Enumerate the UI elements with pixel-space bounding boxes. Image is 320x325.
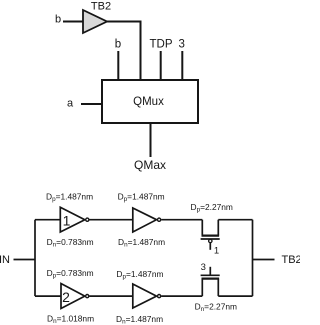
wire QMux output xyxy=(150,123,152,157)
transistor M1 drain lead xyxy=(217,220,219,236)
wire inverter 2b to transistor M3 xyxy=(161,295,202,297)
svg-text:IN: IN xyxy=(0,254,10,266)
wire buffer output to QMux xyxy=(107,22,141,81)
svg-text:3: 3 xyxy=(201,262,206,273)
transistor M1 gate bubble xyxy=(209,239,212,242)
wire pin 3 xyxy=(181,51,183,80)
svg-text:a: a xyxy=(67,98,74,110)
wire TB2 output xyxy=(253,259,275,261)
svg-text:1: 1 xyxy=(63,213,71,229)
svg-text:1: 1 xyxy=(214,246,219,257)
transistor M3 gate bar xyxy=(201,274,220,276)
svg-text:TDP: TDP xyxy=(150,39,173,51)
svg-text:QMux: QMux xyxy=(133,96,164,108)
inverter 1 xyxy=(60,207,85,232)
transistor M1 source lead xyxy=(201,220,203,236)
svg-text:TB2: TB2 xyxy=(91,1,111,13)
transistor M3 drain lead xyxy=(217,279,219,297)
transistor M1 gate lead xyxy=(209,243,211,250)
transistor M1 gate bar xyxy=(201,238,220,240)
QMux box xyxy=(102,80,198,123)
inverter 2b xyxy=(133,284,157,308)
wire M3 drain to output bus xyxy=(218,295,252,297)
input branch bus xyxy=(34,220,36,296)
transistor M3 gate lead xyxy=(209,267,211,275)
wire pin b xyxy=(117,51,119,80)
wire a to QMux xyxy=(81,103,102,105)
wire pin TDP xyxy=(160,51,162,80)
wire IN xyxy=(14,259,36,261)
svg-text:QMax: QMax xyxy=(134,158,166,172)
wire inverter 1 to inverter 1b xyxy=(89,219,133,221)
transistor M3 channel bar xyxy=(202,278,220,280)
inverter 1b xyxy=(133,208,157,232)
svg-text:b: b xyxy=(115,39,121,51)
svg-text:3: 3 xyxy=(178,39,184,51)
svg-text:b: b xyxy=(55,14,61,26)
svg-text:TB2: TB2 xyxy=(282,254,301,266)
buffer U1 xyxy=(83,10,107,33)
wire inverter 2 to inverter 2b xyxy=(89,295,133,297)
transistor M3 source lead xyxy=(201,279,203,297)
svg-text:2: 2 xyxy=(62,289,70,305)
wire M1 drain to output bus xyxy=(218,219,252,221)
inverter 2 xyxy=(61,284,85,309)
wire inverter 1b to transistor M1 xyxy=(161,219,202,221)
output bus xyxy=(252,220,254,296)
wire to inverter 2 xyxy=(35,295,61,297)
transistor M1 channel bar xyxy=(202,235,220,237)
wire to inverter 1 xyxy=(35,219,61,221)
wire b to buffer xyxy=(63,21,83,23)
